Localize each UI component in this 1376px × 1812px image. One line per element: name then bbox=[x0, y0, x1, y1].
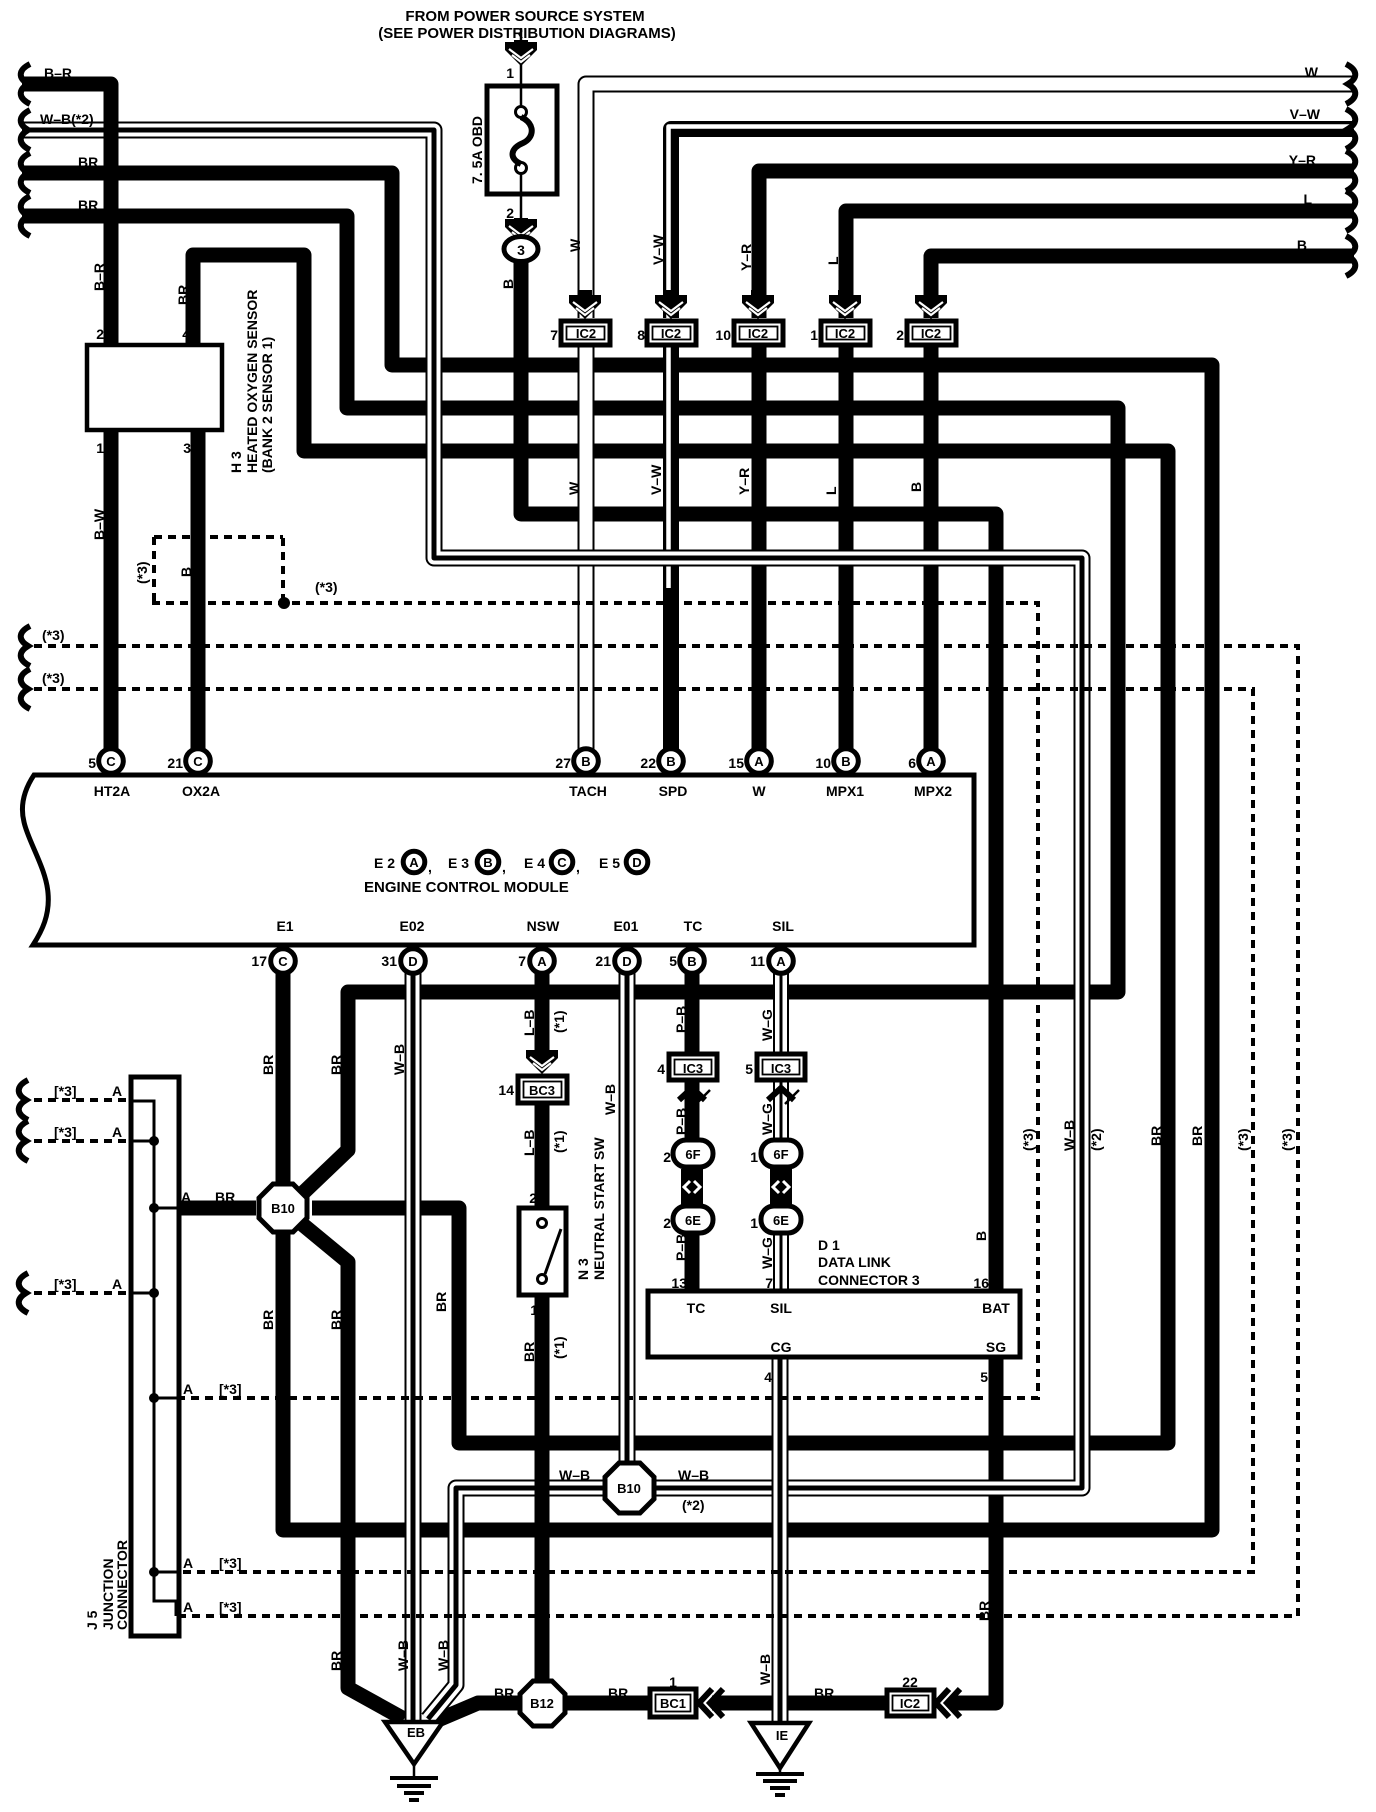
svg-text:W: W bbox=[566, 481, 582, 495]
svg-text:W: W bbox=[567, 238, 583, 252]
svg-text:MPX1: MPX1 bbox=[826, 783, 864, 799]
svg-text:14: 14 bbox=[498, 1082, 514, 1098]
svg-text:,: , bbox=[428, 859, 432, 875]
wire BR from B12 left to EB ground bbox=[438, 1703, 522, 1720]
6E connector on SIL wire bbox=[761, 1206, 801, 1233]
svg-text:HEATED OXYGEN SENSOR: HEATED OXYGEN SENSOR bbox=[244, 290, 260, 473]
svg-text:V–W: V–W bbox=[1290, 106, 1321, 122]
wire from fuse pin 2 to connector 3 bbox=[520, 194, 523, 235]
svg-text:CONNECTOR: CONNECTOR bbox=[114, 1540, 130, 1630]
svg-text:B: B bbox=[581, 754, 590, 769]
svg-text:A: A bbox=[181, 1189, 191, 1205]
svg-text:7: 7 bbox=[550, 327, 558, 343]
svg-text:A: A bbox=[112, 1124, 122, 1140]
svg-text:W–G: W–G bbox=[759, 1009, 775, 1041]
svg-text:22: 22 bbox=[640, 755, 656, 771]
svg-text:11: 11 bbox=[750, 953, 765, 969]
svg-text:5: 5 bbox=[669, 953, 677, 969]
svg-text:(*3): (*3) bbox=[134, 561, 150, 584]
arrow into fuse pin 1 bbox=[514, 40, 528, 44]
svg-text:(*3): (*3) bbox=[42, 670, 65, 686]
arrows pointing left into IC2 22 bbox=[936, 1689, 960, 1717]
wire P-B from ECM pin TC down to IC3 pin 4 bbox=[685, 966, 700, 1056]
dashed (*3) row into J5 at y1141 bbox=[34, 1139, 129, 1143]
svg-text:W–B: W–B bbox=[602, 1084, 618, 1115]
wire W-G from 6F to 6E junction arrows bbox=[773, 1164, 789, 1208]
svg-text:1: 1 bbox=[506, 65, 514, 81]
svg-text:BC3: BC3 bbox=[529, 1083, 555, 1098]
ECM internal pin E4 C bbox=[551, 851, 573, 873]
mating arrows between 6F and 6E on SIL wire bbox=[770, 1169, 792, 1205]
svg-text:A: A bbox=[112, 1083, 122, 1099]
svg-text:IC2: IC2 bbox=[576, 326, 596, 341]
svg-text:W–B(*2): W–B(*2) bbox=[40, 111, 94, 127]
IC2 connector pin 10 bbox=[751, 290, 765, 297]
wire B from IC2 pin 2 to ECM pin MPX2 bbox=[924, 345, 939, 752]
wire L from right edge to IC2 pin 1 bbox=[846, 211, 1354, 318]
ECM pin 15 A W bbox=[747, 749, 772, 774]
wire BR from B10 bottom right diagonal down x348 to EB ground bbox=[302, 1224, 404, 1719]
svg-text:W–B: W–B bbox=[1061, 1120, 1077, 1151]
svg-text:NEUTRAL START SW: NEUTRAL START SW bbox=[591, 1137, 607, 1280]
svg-text:7. 5A OBD: 7. 5A OBD bbox=[469, 116, 485, 184]
svg-text:2: 2 bbox=[663, 1215, 671, 1231]
fuse element bbox=[520, 86, 523, 106]
wire W-G from ECM pin SIL down to IC3 pin 5 bbox=[773, 966, 789, 1056]
svg-text:2: 2 bbox=[96, 326, 104, 342]
svg-text:W–B: W–B bbox=[559, 1467, 590, 1483]
svg-text:IE: IE bbox=[776, 1728, 789, 1743]
svg-text:,: , bbox=[576, 859, 580, 875]
svg-text:C: C bbox=[278, 954, 288, 969]
svg-text:CG: CG bbox=[771, 1339, 792, 1355]
dashed (*3) box top at H3 bbox=[154, 535, 283, 539]
svg-text:Y–R: Y–R bbox=[1289, 152, 1316, 168]
wire BR from BC1 to B12 bbox=[563, 1696, 652, 1711]
brace left edge BR y216 bbox=[21, 196, 30, 236]
svg-text:A: A bbox=[754, 754, 764, 769]
ECM pin 21 C OX2A bbox=[186, 749, 211, 774]
arrow into connector 3 bbox=[514, 218, 528, 221]
svg-text:5: 5 bbox=[88, 755, 96, 771]
ECM pin 7 A NSW bbox=[530, 949, 555, 974]
svg-text:V–W: V–W bbox=[648, 464, 664, 495]
svg-text:[*3]: [*3] bbox=[54, 1083, 77, 1099]
svg-text:8: 8 bbox=[637, 327, 645, 343]
svg-text:27: 27 bbox=[555, 755, 571, 771]
wire W from IC2 pin 7 to ECM pin TACH (white wire) bbox=[578, 345, 595, 752]
brace left edge [*3] y1141 bbox=[19, 1121, 28, 1161]
svg-text:W–B: W–B bbox=[678, 1467, 709, 1483]
D1 data link connector 3 box bbox=[648, 1291, 1020, 1357]
svg-text:A: A bbox=[776, 954, 786, 969]
IC2 connector pin 22 bbox=[887, 1690, 934, 1716]
svg-text:Y–R: Y–R bbox=[738, 244, 754, 271]
IE ground symbol bbox=[779, 1768, 782, 1772]
IC3 connector pin 5 bbox=[757, 1054, 805, 1080]
IC2 connector pin 8 bbox=[664, 290, 678, 297]
ECM pin 11 A SIL bbox=[769, 949, 794, 974]
svg-text:6F: 6F bbox=[773, 1147, 788, 1162]
svg-text:B: B bbox=[666, 754, 675, 769]
svg-text:CONNECTOR 3: CONNECTOR 3 bbox=[818, 1272, 920, 1288]
brace right edge B bbox=[1346, 236, 1355, 276]
svg-text:L: L bbox=[825, 256, 841, 265]
svg-text:IC2: IC2 bbox=[900, 1696, 920, 1711]
svg-text:B: B bbox=[178, 567, 194, 577]
svg-text:H 3: H 3 bbox=[228, 451, 244, 473]
svg-text:BR: BR bbox=[814, 1685, 834, 1701]
svg-text:TC: TC bbox=[687, 1300, 706, 1316]
svg-text:4: 4 bbox=[657, 1061, 665, 1077]
svg-text:BR: BR bbox=[433, 1292, 449, 1312]
svg-text:B–R: B–R bbox=[44, 65, 72, 81]
svg-text:2: 2 bbox=[896, 327, 904, 343]
svg-text:A: A bbox=[409, 855, 419, 870]
wire V-W black base from right edge to IC2 pin 8 bbox=[671, 129, 1354, 318]
svg-text:IC3: IC3 bbox=[771, 1061, 791, 1076]
EB ground symbol bbox=[413, 1764, 416, 1776]
arrow up into IC3 pin 5 bbox=[768, 1088, 794, 1100]
svg-text:(*1): (*1) bbox=[551, 1010, 567, 1033]
svg-text:17: 17 bbox=[251, 953, 267, 969]
svg-text:IC3: IC3 bbox=[683, 1061, 703, 1076]
IC2 connector pin 2 bbox=[924, 290, 938, 297]
svg-text:W: W bbox=[752, 783, 766, 799]
wire B from right edge to IC2 pin 2 bbox=[931, 256, 1354, 318]
svg-text:10: 10 bbox=[715, 327, 731, 343]
svg-text:2: 2 bbox=[529, 1190, 537, 1206]
svg-text:,: , bbox=[502, 859, 506, 875]
wire BR from J5 junction connector to B10 left bbox=[178, 1201, 256, 1216]
svg-text:D 1: D 1 bbox=[818, 1237, 840, 1253]
wire P-B from IC3 pin 4 to 6F bbox=[685, 1078, 700, 1142]
EB ground triangle bbox=[385, 1722, 443, 1764]
svg-text:P–B: P–B bbox=[673, 1234, 689, 1261]
svg-text:BC1: BC1 bbox=[660, 1696, 686, 1711]
svg-text:W–B: W–B bbox=[435, 1640, 451, 1671]
IC2 connector pin 7 bbox=[578, 290, 592, 297]
svg-text:Y–R: Y–R bbox=[736, 468, 752, 495]
svg-text:BR: BR bbox=[78, 154, 98, 170]
mating arrows between 6F and 6E on TC wire bbox=[681, 1169, 703, 1205]
wire W from right edge to IC2 pin 7 (white wire) bbox=[586, 84, 1354, 318]
wire P-B from 6E to DLC3 pin 13 bbox=[685, 1230, 700, 1293]
svg-text:[*3]: [*3] bbox=[219, 1599, 242, 1615]
B12 junction connector octagon bbox=[520, 1681, 565, 1726]
svg-text:TACH: TACH bbox=[569, 783, 607, 799]
svg-text:(*2): (*2) bbox=[1088, 1128, 1104, 1151]
wire BR NSW crossing over W-B at B10(2) row bbox=[535, 1477, 550, 1499]
wire BR from ECM pin E1 down to B10 top bbox=[276, 966, 291, 1186]
arrows pointing left into BC1 bbox=[699, 1689, 723, 1717]
svg-text:15: 15 bbox=[728, 755, 744, 771]
brace left edge (*3) y689 bbox=[21, 669, 30, 709]
svg-text:2: 2 bbox=[663, 1149, 671, 1165]
svg-text:(*2): (*2) bbox=[682, 1497, 705, 1513]
H3 heated oxygen sensor box bbox=[87, 345, 222, 430]
svg-text:3: 3 bbox=[183, 440, 191, 456]
wire Y-R from right edge to IC2 pin 10 bbox=[759, 171, 1354, 318]
svg-text:7: 7 bbox=[518, 953, 526, 969]
wire B from fuse: down x521, row y514, down x996 to DLC3 BAT pin 16 bbox=[521, 262, 996, 1293]
ECM internal pin E2 A bbox=[403, 851, 425, 873]
svg-text:BR: BR bbox=[608, 1685, 628, 1701]
svg-text:D: D bbox=[632, 855, 641, 870]
svg-text:5: 5 bbox=[980, 1369, 988, 1385]
svg-text:2: 2 bbox=[506, 205, 514, 221]
wire W-B from B10(2) left to EB ground bbox=[428, 1488, 607, 1719]
svg-text:5: 5 bbox=[745, 1061, 753, 1077]
svg-text:HT2A: HT2A bbox=[94, 783, 131, 799]
brace left edge [*3] y1100 bbox=[19, 1080, 28, 1120]
BC3 connector bbox=[518, 1076, 567, 1103]
fuse 7.5A OBD box bbox=[487, 86, 557, 194]
6F connector on SIL wire bbox=[761, 1140, 801, 1167]
brace left edge W-B(*2) bbox=[21, 110, 30, 150]
svg-text:W–B: W–B bbox=[391, 1044, 407, 1075]
svg-text:IC2: IC2 bbox=[748, 326, 768, 341]
svg-text:4: 4 bbox=[764, 1369, 772, 1385]
svg-text:B–R: B–R bbox=[91, 263, 107, 291]
ECM pin 27 B TACH bbox=[574, 749, 599, 774]
brace left edge BR y173 bbox=[21, 153, 30, 193]
svg-text:W–G: W–G bbox=[759, 1237, 775, 1269]
svg-text:1: 1 bbox=[530, 1302, 538, 1318]
svg-text:BR: BR bbox=[78, 197, 98, 213]
brace right edge Y-R bbox=[1346, 151, 1355, 191]
svg-text:10: 10 bbox=[815, 755, 831, 771]
ECM internal pin E3 B bbox=[477, 851, 499, 873]
svg-text:6E: 6E bbox=[773, 1213, 789, 1228]
svg-text:(BANK 2 SENSOR 1): (BANK 2 SENSOR 1) bbox=[259, 337, 275, 473]
dashed (*3) row into J5 at y1293 bbox=[34, 1291, 129, 1295]
svg-text:BR: BR bbox=[328, 1651, 344, 1671]
svg-text:L: L bbox=[1303, 191, 1312, 207]
IC2 connector pin 1 bbox=[838, 290, 852, 297]
wire L-B from BC3 to N3 neutral start switch pin 2 bbox=[535, 1103, 550, 1208]
svg-text:(*1): (*1) bbox=[551, 1336, 567, 1359]
svg-text:(*3): (*3) bbox=[1020, 1128, 1036, 1151]
svg-text:SPD: SPD bbox=[659, 783, 688, 799]
svg-text:W–B: W–B bbox=[395, 1640, 411, 1671]
svg-text:6F: 6F bbox=[685, 1147, 700, 1162]
6E connector on TC wire bbox=[673, 1206, 713, 1233]
wire W-G from 6E to DLC3 pin 7 bbox=[773, 1230, 789, 1293]
wire from H3 pin 3 to ECM pin OX2A bbox=[191, 428, 206, 752]
BC1 connector bbox=[650, 1689, 696, 1717]
wire B-R from left edge to H3 pin 2 bbox=[22, 84, 111, 345]
svg-text:IC2: IC2 bbox=[835, 326, 855, 341]
svg-text:P–B: P–B bbox=[673, 1108, 689, 1135]
svg-text:E 2: E 2 bbox=[374, 855, 395, 871]
svg-text:BR: BR bbox=[521, 1342, 537, 1362]
svg-text:BR: BR bbox=[175, 285, 191, 305]
arrow into BC3 bbox=[535, 1046, 549, 1052]
svg-text:ENGINE CONTROL MODULE: ENGINE CONTROL MODULE bbox=[364, 879, 569, 896]
connector circle 3 bbox=[504, 237, 538, 262]
svg-text:B12: B12 bbox=[530, 1696, 554, 1711]
svg-text:(*3): (*3) bbox=[315, 579, 338, 595]
svg-text:(*3): (*3) bbox=[1235, 1128, 1251, 1151]
svg-text:A: A bbox=[183, 1599, 193, 1615]
svg-text:BR: BR bbox=[1189, 1126, 1205, 1146]
wire B-W from H3 pin 1 to ECM pin HT2A bbox=[104, 428, 119, 752]
svg-text:C: C bbox=[106, 754, 116, 769]
ECM pin 10 B MPX1 bbox=[834, 749, 859, 774]
svg-text:C: C bbox=[193, 754, 203, 769]
svg-text:A: A bbox=[183, 1555, 193, 1571]
brace right edge W bbox=[1346, 64, 1355, 104]
brace left edge (*3) y646 bbox=[21, 626, 30, 666]
svg-text:31: 31 bbox=[381, 953, 397, 969]
ECM pin 22 B SPD bbox=[659, 749, 684, 774]
svg-text:L: L bbox=[823, 486, 839, 495]
svg-text:IC2: IC2 bbox=[921, 326, 941, 341]
svg-text:B: B bbox=[908, 482, 924, 492]
svg-text:BAT: BAT bbox=[982, 1300, 1010, 1316]
svg-text:BR: BR bbox=[260, 1055, 276, 1075]
wire L from IC2 pin 1 to ECM pin MPX1 bbox=[839, 345, 854, 752]
dashed (*3) net: left edge row y646, down x1298, row y1616 back to J5 bbox=[34, 646, 1298, 1616]
svg-text:DATA LINK: DATA LINK bbox=[818, 1254, 891, 1270]
dashed (*3) net: row y603, down x1038, row y1398 back to J5 bbox=[152, 603, 1038, 1398]
svg-text:3: 3 bbox=[517, 242, 525, 258]
svg-text:C: C bbox=[557, 855, 567, 870]
dashed (*3) box left vertical at H3 bbox=[152, 537, 156, 604]
svg-text:SIL: SIL bbox=[770, 1300, 792, 1316]
wire L-B from ECM pin NSW down to BC3 bbox=[535, 966, 550, 1056]
svg-text:16: 16 bbox=[973, 1275, 989, 1291]
svg-text:1: 1 bbox=[750, 1215, 758, 1231]
wire W-B from ECM pin E02 down to EB ground bbox=[405, 966, 422, 1722]
feed line from power source text to fuse bbox=[520, 28, 523, 86]
svg-text:BR: BR bbox=[215, 1189, 235, 1205]
svg-text:A: A bbox=[926, 754, 936, 769]
svg-text:B: B bbox=[687, 954, 696, 969]
wire P-B from 6F to 6E junction arrows bbox=[685, 1164, 700, 1208]
wire W-B from DLC3 pin CG down to IE ground bbox=[772, 1357, 789, 1725]
svg-text:E 5: E 5 bbox=[599, 855, 620, 871]
node dot junction (*3) bbox=[278, 597, 290, 609]
svg-text:21: 21 bbox=[595, 953, 611, 969]
ECM engine control module box with wavy left edge bbox=[22, 775, 974, 945]
wire BR net2: left edge y216, down x347, row y408, down x1118, row y992, down x348 to B10 top right bbox=[22, 216, 1118, 1192]
wire BR from DLC3 pin SG down and left to IC2 pin 22 bbox=[950, 1357, 996, 1703]
svg-text:N 3: N 3 bbox=[575, 1258, 591, 1280]
wire BR from N3 pin 1 down to B12 bbox=[535, 1293, 550, 1682]
svg-text:[*3]: [*3] bbox=[219, 1381, 242, 1397]
svg-text:B10: B10 bbox=[617, 1481, 641, 1496]
svg-text:(*3): (*3) bbox=[42, 627, 65, 643]
svg-text:7: 7 bbox=[765, 1275, 773, 1291]
svg-text:D: D bbox=[408, 954, 417, 969]
IE ground triangle bbox=[751, 1723, 809, 1768]
J5 junction dots bbox=[149, 1136, 159, 1146]
svg-text:TC: TC bbox=[684, 918, 703, 934]
ECM pin 6 A MPX2 bbox=[919, 749, 944, 774]
ECM pin 5 C HT2A bbox=[99, 749, 124, 774]
svg-text:B: B bbox=[973, 1231, 989, 1241]
wire B-R crossing over W-B(*2) bbox=[104, 120, 119, 141]
wire BR from H3 pin 4: up, right y255, down x304, row y451, down x1168, row y1443, up x459, B10 right bbox=[193, 255, 1168, 1443]
svg-text:A: A bbox=[183, 1381, 193, 1397]
svg-text:B: B bbox=[483, 855, 492, 870]
svg-text:6E: 6E bbox=[685, 1213, 701, 1228]
svg-text:BR: BR bbox=[494, 1685, 514, 1701]
svg-text:E01: E01 bbox=[614, 918, 639, 934]
wire V-W white stripe (right edge to IC2 pin 8) bbox=[669, 127, 1355, 319]
svg-text:BR: BR bbox=[328, 1055, 344, 1075]
svg-text:E1: E1 bbox=[276, 918, 293, 934]
svg-text:13: 13 bbox=[671, 1275, 687, 1291]
wire Y-R from IC2 pin 10 to ECM pin W bbox=[752, 345, 767, 752]
brace left edge B-R bbox=[21, 64, 30, 104]
svg-text:EB: EB bbox=[407, 1725, 425, 1740]
svg-text:22: 22 bbox=[902, 1674, 918, 1690]
svg-text:SG: SG bbox=[986, 1339, 1006, 1355]
svg-text:21: 21 bbox=[167, 755, 183, 771]
svg-text:4: 4 bbox=[182, 326, 190, 342]
wire BR net1: left edge y173, down x392, row y365, down x1212, row y1530, up x283 to B10 bottom bbox=[22, 173, 1212, 1530]
6F connector on TC wire bbox=[673, 1140, 713, 1167]
svg-text:P–B: P–B bbox=[673, 1006, 689, 1033]
svg-text:MPX2: MPX2 bbox=[914, 783, 952, 799]
svg-text:W: W bbox=[1305, 64, 1319, 80]
ECM pin 17 C E1 bbox=[271, 949, 296, 974]
svg-text:E02: E02 bbox=[400, 918, 425, 934]
dashed (*3) box right vertical to node dot bbox=[281, 538, 285, 600]
svg-text:1: 1 bbox=[96, 440, 104, 456]
svg-text:BR: BR bbox=[260, 1310, 276, 1330]
wire W-B(*2): left edge y130, down x434, row y558, down x1082, to B10(2) right bbox=[22, 130, 1082, 1488]
ECM pin 31 D E02 bbox=[401, 949, 426, 974]
wire V-W black base from IC2 pin 8 to ECM pin SPD bbox=[663, 345, 679, 752]
svg-text:[*3]: [*3] bbox=[54, 1124, 77, 1140]
svg-text:(*3): (*3) bbox=[1279, 1128, 1295, 1151]
svg-text:[*3]: [*3] bbox=[54, 1276, 77, 1292]
svg-text:1: 1 bbox=[669, 1674, 677, 1690]
wire BR from IC2 22 to BC1 chevrons bbox=[712, 1696, 889, 1711]
svg-text:BR: BR bbox=[1148, 1126, 1164, 1146]
dashed (*3) row into J5 at y1100 bbox=[34, 1098, 133, 1102]
dashed (*3) net: left edge row y689, down x1253, row y1572 back to J5 bbox=[34, 689, 1253, 1572]
IC3 connector pin 4 bbox=[669, 1054, 717, 1080]
svg-text:W–G: W–G bbox=[759, 1103, 775, 1135]
svg-text:W–B: W–B bbox=[757, 1654, 773, 1685]
svg-text:1: 1 bbox=[810, 327, 818, 343]
svg-text:J 5: J 5 bbox=[84, 1610, 100, 1630]
ECM internal pin E5 D bbox=[626, 851, 648, 873]
svg-text:NSW: NSW bbox=[527, 918, 560, 934]
svg-text:V–W: V–W bbox=[650, 234, 666, 265]
ECM pin 5 B TC bbox=[680, 949, 705, 974]
ECM pin 21 D E01 bbox=[615, 949, 640, 974]
svg-text:B–W: B–W bbox=[91, 508, 107, 540]
svg-text:BR: BR bbox=[328, 1310, 344, 1330]
svg-text:B: B bbox=[1297, 237, 1307, 253]
svg-text:B10: B10 bbox=[271, 1201, 295, 1216]
svg-text:BR: BR bbox=[976, 1601, 992, 1621]
wire V-W white stripe (IC2 pin 8 to ECM pin SPD) bbox=[666, 345, 671, 588]
svg-text:A: A bbox=[537, 954, 547, 969]
B10 junction connector octagon bbox=[259, 1184, 307, 1232]
svg-text:L–B: L–B bbox=[521, 1130, 537, 1156]
arrow up into IC3 pin 4 bbox=[679, 1088, 705, 1100]
svg-text:A: A bbox=[112, 1276, 122, 1292]
svg-text:B: B bbox=[841, 754, 850, 769]
svg-text:FROM POWER SOURCE SYSTEM: FROM POWER SOURCE SYSTEM bbox=[405, 8, 644, 25]
